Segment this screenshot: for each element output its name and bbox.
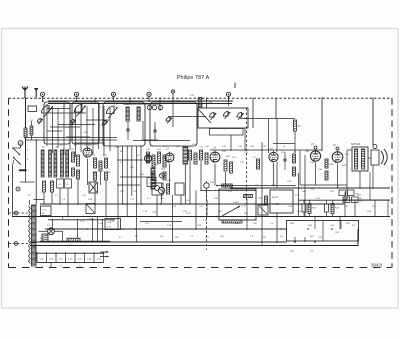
mains transformer secondary [32, 205, 37, 266]
resistor R8 [105, 158, 108, 168]
switch bar [19, 169, 27, 171]
stub x160 [159, 98, 161, 103]
mains transformer primary [29, 206, 31, 264]
labels R43 [335, 208, 340, 210]
valve L4 mixer [210, 151, 220, 163]
wire x305b [304, 155, 306, 217]
circled node B [18, 141, 23, 146]
mixer comb horizontals [117, 160, 150, 185]
svg-text:C.78: C.78 [241, 206, 246, 208]
wire y143 right [273, 143, 295, 145]
capacitor C12 [152, 172, 155, 180]
tone box [270, 190, 293, 213]
rf wiring comb [47, 104, 110, 157]
capacitor C30 [283, 152, 286, 170]
resistor R18 [257, 159, 260, 169]
label R36 [330, 164, 335, 166]
output transformer S25 S26 [352, 147, 368, 171]
osc trimmer C21 [223, 111, 230, 118]
coil S7 [66, 150, 69, 177]
valve L4b detector [269, 151, 278, 163]
diode D1 [204, 181, 209, 200]
svg-text:3942i: 3942i [371, 263, 382, 268]
ticks on feedback box [290, 237, 316, 253]
label L4b [270, 148, 273, 151]
label rf1 [42, 147, 75, 152]
capacitor C2a [30, 121, 33, 140]
contact k3 [111, 92, 115, 102]
valve L5 output [310, 149, 320, 162]
resistor R15 [224, 160, 227, 171]
valve drops [162, 161, 226, 204]
capacitor C11b [153, 122, 156, 141]
output wires [316, 150, 374, 188]
resistor R11 [152, 155, 155, 167]
capacitor C41 [302, 200, 306, 217]
svg-text:4+0.35: 4+0.35 [272, 204, 280, 206]
label C36 [250, 146, 255, 148]
coil L3 [137, 107, 140, 121]
resistor R5 [77, 170, 80, 179]
HT wire y150 [210, 149, 322, 151]
osc wires [214, 128, 245, 150]
switch wires [13, 145, 35, 216]
wire y221 mid [140, 221, 182, 223]
detector drops [262, 142, 274, 186]
rf screen box 2 [72, 102, 99, 144]
cluster top right low [339, 190, 364, 203]
small box top left [28, 106, 37, 112]
label L1 [84, 144, 87, 147]
psu bottom wire [35, 246, 37, 263]
voltage row drop wire [50, 263, 52, 268]
component box [175, 183, 184, 195]
bandfilter wires [123, 104, 160, 140]
mixer comb [118, 146, 141, 242]
tuning capacitor C1 sector [42, 106, 53, 118]
rail y188 right [230, 187, 390, 189]
earth terminal [34, 88, 38, 98]
tick mark x235 [234, 83, 236, 89]
svg-text:15: 15 [98, 265, 100, 267]
rail y229 [45, 228, 287, 230]
wire x299 [298, 173, 300, 217]
label psu [87, 219, 103, 225]
oscillator sub box [210, 129, 244, 136]
IF components mid [189, 150, 209, 164]
wire y185 right [300, 184, 347, 186]
contact k5 [171, 90, 174, 101]
wire x322 top [321, 98, 323, 152]
box value 1.9 [57, 179, 64, 188]
wire y190 mid [200, 190, 256, 192]
wire x276 top [275, 98, 277, 119]
wire y186 mid [216, 185, 296, 187]
wire x262 low2 [261, 242, 263, 246]
resistor R44 mains [67, 238, 80, 241]
trimmer Ct1 [37, 118, 42, 124]
bandfilter screen box D [150, 102, 197, 146]
svg-text:.8: .8 [41, 265, 43, 267]
resistor R13 [163, 155, 166, 167]
resistor R3 [72, 152, 75, 162]
tuning capacitor C3 sector [107, 106, 118, 118]
lamp wires [39, 231, 63, 241]
resistor R19 [294, 120, 297, 131]
rail y245 [30, 229, 358, 246]
resistor R43 [331, 200, 334, 217]
band switch S1a [12, 147, 20, 155]
wire x268 [268, 119, 270, 154]
oscillator box [198, 108, 248, 128]
label pot [233, 202, 246, 208]
tone labels [272, 197, 280, 206]
wire x206 top [206, 98, 208, 109]
rf wiring horizontals [47, 109, 110, 144]
trimmer C10 [166, 117, 172, 123]
coil S14 bar [151, 168, 155, 189]
plug contacts [14, 211, 18, 245]
rail y204 [40, 203, 345, 205]
capacitor C11 [126, 121, 129, 140]
trimmer Ct3 [102, 120, 107, 126]
fuse box [41, 206, 52, 216]
chassis dashed border bottom [9, 267, 392, 269]
label S25 S26 [351, 143, 361, 146]
stub x130 [129, 98, 131, 103]
svg-text:B: B [20, 141, 22, 145]
resistor on antenna lead [24, 128, 27, 137]
wire y118 [240, 118, 295, 120]
bus wire top 2 [48, 103, 232, 105]
resistor R6 [94, 158, 97, 168]
bandfilter screen box C [103, 102, 145, 146]
chassis dashed border top [9, 97, 392, 99]
annotation labels 2 [27, 144, 377, 239]
resistor R41 [308, 200, 311, 217]
contact k1 [41, 92, 45, 102]
label L3 [166, 148, 169, 151]
right low box wires [347, 188, 390, 217]
coil S4 [49, 150, 52, 177]
labels R42 [312, 208, 317, 210]
antenna down lead [25, 98, 27, 172]
capacitor C40 [343, 192, 346, 217]
band switch S1b [13, 157, 21, 165]
coil L2 [126, 107, 129, 121]
resistor R1 [43, 181, 46, 192]
bus wire top 1 [48, 100, 232, 102]
lower mid verticals [157, 186, 247, 243]
contact k4 [147, 92, 151, 102]
resistor R23 [325, 171, 328, 180]
resistor R20 [293, 154, 296, 163]
wire x253 top [252, 98, 254, 129]
resistor R21 [293, 167, 296, 176]
wire x373 top [372, 98, 374, 146]
rail y216 [12, 216, 390, 218]
small valve L3b [158, 183, 164, 194]
contact k2 [74, 92, 78, 102]
gang dashed link [246, 108, 248, 204]
switch box 2 [86, 204, 95, 214]
antenna [22, 87, 28, 98]
psu wire y219 [48, 219, 115, 221]
label R17b [298, 126, 303, 128]
arrow indicator 2 [100, 256, 109, 258]
labels lower mid [152, 212, 202, 227]
wire x370b [369, 172, 371, 200]
svg-text:4+2.5: 4+2.5 [272, 197, 279, 199]
resistor R7 [99, 161, 102, 171]
valve L2 small [145, 154, 152, 164]
transformer top wires [30, 140, 45, 205]
mains switch [89, 182, 98, 193]
osc trimmer C20 [209, 112, 216, 119]
psu verticals [53, 217, 103, 242]
ground rail y242 [30, 241, 287, 243]
label L5 [311, 143, 317, 149]
box value 3.95 [65, 179, 72, 188]
capacitor C42 [325, 200, 329, 217]
label C58 [210, 182, 215, 184]
circled contact 45 [16, 187, 20, 191]
mains leads dashed [9, 213, 29, 244]
valve L6 rectifier [332, 150, 343, 163]
coil S3 [41, 150, 44, 177]
svg-text:c: c [28, 169, 29, 171]
resistor R2 [51, 181, 54, 192]
wire x295 [294, 131, 296, 152]
feedback box [287, 221, 359, 242]
annotation labels [28, 100, 372, 238]
resistor R25 [222, 184, 233, 187]
svg-text:R6 NA: R6 NA [68, 244, 75, 247]
bus stub component [190, 95, 202, 107]
contact k6 [226, 92, 230, 101]
wire x300 [299, 150, 301, 185]
capacitor C6 [94, 172, 97, 180]
coil S6 [61, 150, 64, 177]
trimmer Ct2 [70, 119, 75, 125]
capacitor C13 [163, 172, 166, 180]
voltage table row [36, 252, 104, 267]
capacitor C7 [105, 172, 108, 180]
dial lamp L7 [48, 228, 55, 235]
svg-text:+1.04: +1.04 [97, 223, 103, 225]
wire pair y137 y140 [25, 138, 190, 141]
capacitor C5 [72, 168, 75, 176]
label L6 [333, 144, 339, 150]
wire x262 [261, 150, 263, 242]
chassis dashed border left [8, 98, 10, 267]
title Philips 787 A [177, 75, 210, 81]
labels if cluster [146, 149, 166, 171]
small coil circle [160, 173, 165, 178]
valve L1 [83, 147, 92, 159]
svg-text:15: 15 [79, 265, 81, 267]
label L4 [214, 147, 217, 150]
volume pot [222, 206, 242, 223]
resistor R27 [265, 196, 268, 205]
chassis dashed border right [391, 98, 393, 267]
tuning capacitor C2 sector [75, 105, 86, 117]
IF transformer S16 [183, 147, 188, 164]
inner verticals feedback [323, 221, 341, 242]
gang dashed link 2 [206, 190, 208, 250]
resistor R24 [167, 184, 170, 194]
box below if [147, 178, 156, 187]
psu wire y241 [40, 240, 110, 242]
detector cluster [152, 183, 163, 195]
rf screen box 1 [44, 102, 70, 144]
label rf2 [92, 155, 108, 157]
box C34 416 [105, 219, 121, 230]
osc trimmer C22 [237, 112, 244, 119]
resistor R26 [244, 195, 253, 198]
wire x277 [276, 118, 278, 188]
drawing number 3942i [371, 263, 382, 268]
right verticals low [315, 217, 340, 230]
resistor R22 [325, 159, 328, 168]
svg-text:15: 15 [60, 265, 62, 267]
resistor R12 [158, 152, 161, 163]
label NA [68, 244, 75, 247]
svg-text:Philips 787 A: Philips 787 A [177, 75, 210, 81]
svg-text:S25 S26: S25 S26 [351, 143, 361, 146]
label L7 [48, 225, 51, 227]
component box x258 [258, 205, 268, 215]
loudspeaker [371, 145, 387, 166]
stack drop wires [44, 159, 106, 217]
wire y116 link [168, 96, 229, 127]
coil S5 [54, 150, 57, 177]
resistor R10 [147, 152, 150, 163]
arrow indicator 1 [100, 251, 109, 253]
labels mid [187, 147, 204, 149]
valve L3 [165, 152, 174, 163]
wire x277 low [276, 213, 278, 242]
osc coil turns [147, 105, 162, 109]
resistor R16 [230, 162, 233, 173]
resistor R4 [77, 155, 80, 166]
stub x95 [94, 98, 96, 103]
svg-text:4.348: 4.348 [233, 202, 239, 204]
AF box [219, 189, 256, 220]
wire y200 right [299, 199, 391, 201]
box N3 [40, 234, 48, 242]
